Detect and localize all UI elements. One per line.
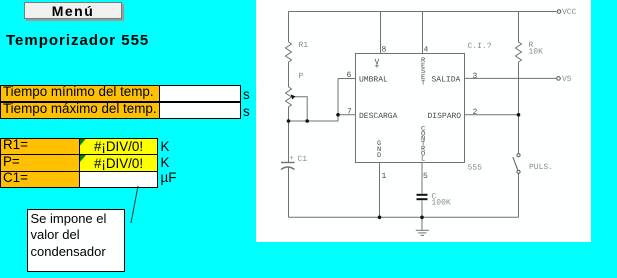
wire pin6: [338, 78, 356, 80]
wire pot wiper: [294, 97, 308, 121]
wire below switch: [518, 174, 520, 218]
svg-text:VCC: VCC: [562, 8, 577, 17]
wire left vertical to C1: [288, 121, 290, 162]
svg-text:D: D: [377, 152, 381, 160]
terminal VS: [557, 77, 561, 81]
svg-text:2: 2: [473, 108, 478, 117]
switch PULS lever: [513, 157, 518, 170]
potentiometer wiper arrow: [291, 94, 296, 99]
resistor R1: [286, 42, 292, 62]
white schematic background panel: [256, 0, 591, 242]
terminal VCC: [557, 10, 561, 14]
wire pin3: [465, 77, 557, 79]
ground symbol: [421, 217, 423, 230]
wire left vertical mid: [288, 62, 290, 87]
svg-text:7: 7: [347, 108, 352, 117]
svg-text:T: T: [421, 79, 425, 87]
capacitor C plates: [417, 194, 428, 200]
svg-text:+: +: [375, 63, 380, 72]
svg-text:DESCARGA: DESCARGA: [359, 112, 398, 121]
svg-text:555: 555: [468, 164, 483, 173]
svg-text:L: L: [421, 156, 425, 164]
callout leader line: [131, 186, 138, 223]
svg-text:10K: 10K: [529, 48, 544, 57]
svg-text:100K: 100K: [432, 199, 451, 208]
svg-text:1: 1: [382, 172, 387, 181]
node cap-gnd junction: [420, 216, 424, 220]
svg-text:SALIDA: SALIDA: [432, 76, 461, 85]
svg-text:P: P: [299, 72, 304, 81]
resistor R 10K: [516, 12, 522, 63]
svg-text:UMBRAL: UMBRAL: [359, 76, 388, 85]
node wiper junction: [305, 119, 309, 123]
svg-text:R1: R1: [299, 41, 309, 50]
svg-text:5: 5: [423, 172, 428, 181]
wire pin5: [421, 163, 423, 194]
svg-text:PULS.: PULS.: [529, 163, 553, 172]
svg-text:VS: VS: [562, 75, 572, 84]
block 1 : tiempo rows: [0, 85, 160, 103]
wire ground rail: [289, 216, 519, 218]
wire left vertical bottom: [288, 167, 290, 218]
block 2 : R1 / P / C1 rows: [0, 138, 80, 156]
svg-text:C.I.?: C.I.?: [468, 42, 492, 51]
schematic text labels: [290, 8, 577, 208]
svg-text:6: 6: [347, 71, 352, 80]
junction dots: [287, 94, 521, 219]
wire pin1: [379, 163, 381, 218]
svg-text:3: 3: [473, 72, 478, 81]
title: [6, 32, 149, 49]
svg-text:DISPARO: DISPARO: [428, 112, 462, 121]
svg-text:4: 4: [424, 46, 429, 55]
callout text box: [27, 209, 125, 272]
wire pot bottom horizontal: [289, 79, 339, 122]
svg-text:C1: C1: [298, 155, 308, 164]
node pot-left junction: [287, 119, 291, 123]
node pin1-gnd junction: [378, 216, 382, 220]
Menu button: [24, 2, 122, 19]
svg-text:8: 8: [382, 46, 387, 55]
node pin7 junction: [336, 113, 340, 117]
wire pin8: [380, 12, 382, 54]
switch contact circles: [517, 154, 520, 157]
node pin2 junction: [517, 113, 521, 117]
potentiometer P body: [286, 87, 292, 109]
capacitor C1 plates: [281, 162, 295, 164]
wire pin7: [338, 114, 356, 116]
wire pin2: [465, 114, 519, 116]
op-amp U1 555 IC body: [356, 54, 465, 163]
wire left vertical upper: [288, 12, 290, 43]
wire top rail: [289, 11, 557, 13]
wire left vertical to junction: [288, 109, 290, 121]
wire pin4: [422, 12, 424, 54]
wire right vertical: [518, 62, 520, 154]
svg-text:+: +: [290, 155, 294, 163]
